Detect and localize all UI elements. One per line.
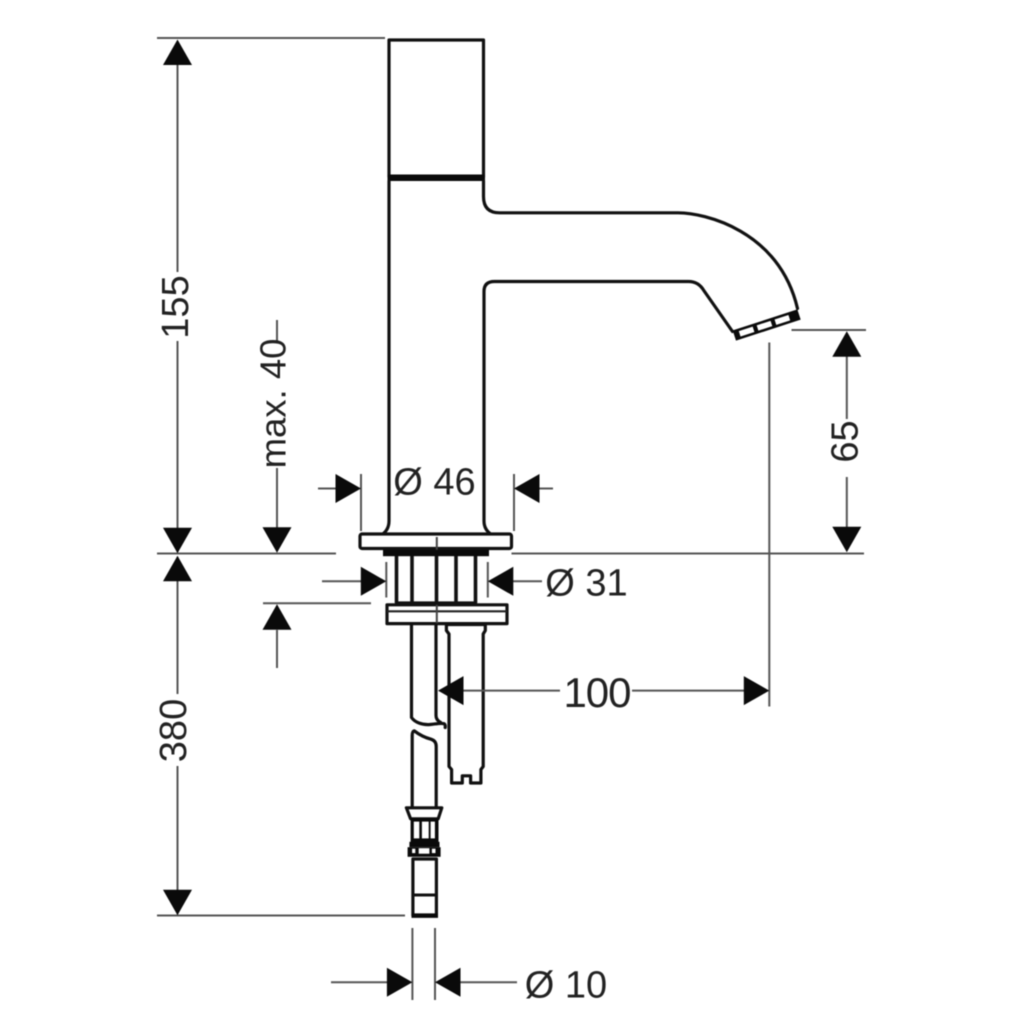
svg-text:Ø 10: Ø 10 xyxy=(525,965,607,1007)
svg-text:Ø 46: Ø 46 xyxy=(393,462,475,504)
svg-text:max. 40: max. 40 xyxy=(253,339,294,469)
svg-text:100: 100 xyxy=(563,669,630,716)
svg-text:65: 65 xyxy=(825,420,867,462)
svg-text:380: 380 xyxy=(153,699,195,762)
svg-text:155: 155 xyxy=(155,275,197,338)
svg-text:Ø 31: Ø 31 xyxy=(545,563,627,605)
